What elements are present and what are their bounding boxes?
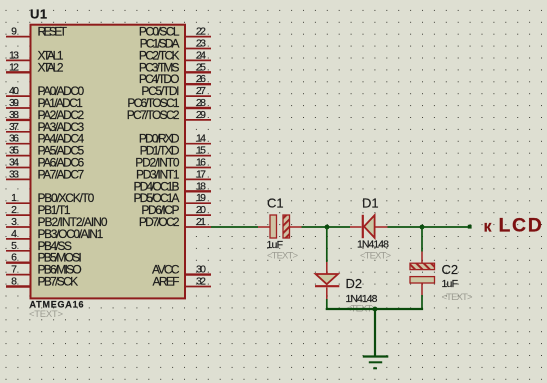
U1 pin 25 (PC3/TMS) right stub + number + name (139, 60, 211, 74)
svg-text:AREF: AREF (153, 275, 180, 289)
U1 pin 20 (PD6/ICP) right stub + number + name (141, 203, 211, 217)
U1 pin 29 (PC7/TOSC2) right stub + number + name (127, 108, 211, 122)
svg-text:20: 20 (196, 204, 206, 216)
svg-text:PC7/TOSC2: PC7/TOSC2 (127, 108, 180, 122)
svg-text:13: 13 (9, 49, 19, 61)
diode D2 anode lead (top) (326, 262, 328, 274)
wire: node B down to C2 (green vertical segment) (421, 227, 423, 252)
U1 pin 28 (PC6/TOSC1) right stub + number + name (127, 96, 211, 110)
U1 pin 32 (AREF) right stub + number + name (153, 275, 212, 289)
svg-text:1uF: 1uF (267, 239, 284, 251)
svg-text:35: 35 (9, 145, 19, 157)
U1 pin 39 (PA1/ADC1) left stub + number + name (6, 96, 83, 110)
U1 pin 24 (PC2/TCK) right stub + number + name (139, 48, 211, 62)
U1 pin 6 (PB5/MOSI) left stub + number + name (6, 251, 82, 265)
svg-text:<TEXT>: <TEXT> (267, 251, 298, 262)
capacitor C2 top lead (421, 252, 423, 264)
svg-text:U1: U1 (30, 7, 48, 22)
svg-text:22: 22 (196, 26, 206, 38)
U1 pin 14 (PD0/RXD) right stub + number + name (139, 132, 211, 146)
U1 pin 21 (PD7/OC2) right stub + number + name (139, 215, 211, 229)
svg-text:ATMEGA16: ATMEGA16 (30, 300, 84, 310)
svg-text:<TEXT>: <TEXT> (442, 292, 473, 303)
diode D2 cathode bar (315, 285, 339, 287)
svg-text:5: 5 (11, 240, 17, 252)
svg-text:C1: C1 (267, 196, 284, 211)
wire: D1 to node B (green segment) (388, 226, 423, 228)
svg-text:PB7/SCK: PB7/SCK (38, 275, 79, 289)
svg-text:7: 7 (11, 264, 17, 276)
svg-text:12: 12 (9, 61, 19, 73)
wire: U1 pin21 to C1 (green segment) (211, 226, 258, 228)
svg-text:C2: C2 (442, 262, 459, 277)
svg-text:37: 37 (9, 121, 19, 133)
node A junction dot (C1/D1/D2 branch) (325, 225, 330, 230)
svg-text:RESET: RESET (38, 25, 68, 39)
svg-text:29: 29 (196, 109, 206, 121)
U1 pin 9 (RESET) left stub + number + name (6, 25, 68, 39)
U1 pin 18 (PD4/OC1B) right stub + number + name (134, 179, 212, 193)
svg-text:27: 27 (196, 85, 206, 97)
svg-text:34: 34 (9, 157, 19, 169)
U1 pin 19 (PD5/OC1A) right stub + number + name (134, 191, 212, 205)
svg-text:1uF: 1uF (442, 278, 459, 290)
U1 pin 17 (PD3/INT1) right stub + number + name (136, 167, 211, 181)
svg-text:PD7/OC2: PD7/OC2 (139, 215, 180, 229)
U1 pin 33 (PA7/ADC7) left stub + number + name (6, 167, 85, 181)
svg-text:14: 14 (196, 133, 206, 145)
svg-text:40: 40 (9, 85, 19, 97)
U1 pin 8 (PB7/SCK) left stub + number + name (6, 275, 78, 289)
svg-text:D2: D2 (346, 276, 363, 291)
svg-text:2: 2 (11, 204, 17, 216)
ground stem (374, 309, 376, 356)
svg-text:1N4148: 1N4148 (357, 239, 389, 251)
svg-text:XTAL2: XTAL2 (38, 60, 64, 74)
U1 pin 1 (PB0/XCK/T0) left stub + number + name (6, 191, 95, 205)
diode D1 anode-side lead (right) (376, 226, 388, 228)
U1 pin 40 (PA0/ADC0) left stub + number + name (6, 84, 85, 98)
svg-text:23: 23 (196, 38, 206, 50)
U1 pin 2 (PB1/T1) left stub + number + name (6, 203, 71, 217)
U1 pin 38 (PA2/ADC2) left stub + number + name (6, 108, 85, 122)
capacitor C1 left lead (258, 226, 270, 228)
U1 pin 22 (PC0/SCL) right stub + number + name (139, 25, 211, 39)
U1 pin 26 (PC4/TDO) right stub + number + name (139, 72, 211, 86)
terminal to LCD (green square) (468, 225, 472, 229)
U1 pin 37 (PA3/ADC3) left stub + number + name (6, 120, 85, 134)
wire: node B to LCD terminal (green segment) (422, 226, 468, 228)
svg-text:24: 24 (196, 49, 206, 61)
U1 pin 30 (AVCC) right stub + number + name (152, 263, 211, 277)
capacitor C1 right lead (290, 226, 302, 228)
svg-text:PA7/ADC7: PA7/ADC7 (38, 167, 85, 181)
capacitor C1 right plate (hatched) (283, 215, 290, 238)
svg-text:16: 16 (196, 157, 206, 169)
wire: C1 to node A / D1 (green segment) (302, 226, 351, 228)
U1 pin 7 (PB6/MISO) left stub + number + name (6, 263, 82, 277)
diode D2 triangle (pointing down) (316, 274, 338, 284)
net label: к LCD (to LCD) (484, 215, 544, 237)
wire: D2 to bottom rail (green vertical) (326, 299, 328, 308)
svg-text:21: 21 (196, 216, 206, 228)
U1 pin 34 (PA6/ADC6) left stub + number + name (6, 156, 85, 170)
svg-text:33: 33 (9, 168, 19, 180)
svg-text:30: 30 (196, 264, 206, 276)
capacitor C2 top plate (hatched) (410, 263, 435, 269)
svg-text:8: 8 (11, 276, 17, 288)
U1 pin 13 (XTAL1) left stub + number + name (6, 48, 64, 62)
wire: C2 to bottom rail (green vertical) (421, 295, 423, 308)
svg-text:к: к (484, 219, 493, 236)
U1 pin 23 (PC1/SDA) right stub + number + name (140, 37, 211, 51)
svg-text:1N4148: 1N4148 (346, 293, 378, 305)
svg-text:<TEXT>: <TEXT> (360, 251, 391, 262)
svg-text:<TEXT>: <TEXT> (29, 309, 63, 320)
ground symbol bars (363, 357, 389, 369)
U1 pin 12 (XTAL2) left stub + number + name (6, 60, 64, 74)
svg-text:19: 19 (196, 192, 206, 204)
U1 pin 5 (PB4/SS) left stub + number + name (6, 239, 72, 253)
U1 pin 27 (PC5/TDI) right stub + number + name (141, 84, 211, 98)
U1 pin 36 (PA4/ADC4) left stub + number + name (6, 132, 85, 146)
svg-text:38: 38 (9, 109, 19, 121)
diode D1 cathode lead (left) (350, 226, 362, 228)
diode D1 cathode bar (362, 215, 364, 238)
capacitor C2 bottom plate (410, 277, 435, 283)
ground junction dot (373, 307, 378, 312)
svg-text:3: 3 (11, 216, 17, 228)
svg-text:17: 17 (196, 168, 206, 180)
diode D1 triangle (364, 215, 375, 238)
svg-text:9: 9 (11, 26, 17, 38)
svg-text:15: 15 (196, 145, 206, 157)
wire: node A down to D2 (green vertical segment) (326, 227, 328, 262)
svg-text:LCD: LCD (499, 215, 544, 237)
svg-text:32: 32 (196, 276, 206, 288)
U1 pin 15 (PD1/TXD) right stub + number + name (140, 144, 211, 158)
diode D2 cathode lead (bottom) (326, 287, 328, 299)
svg-text:28: 28 (196, 97, 206, 109)
node B junction dot (D1/C2/LCD) (420, 225, 425, 230)
U1 pin 3 (PB2/INT2/AIN0) left stub + number + name (6, 215, 108, 229)
svg-text:36: 36 (9, 133, 19, 145)
svg-text:26: 26 (196, 73, 206, 85)
U1 pin 4 (PB3/OC0/AIN1) left stub + number + name (6, 227, 104, 241)
svg-text:4: 4 (11, 228, 17, 240)
IC U1 body (ATMEGA16) (31, 25, 186, 299)
U1 pin 35 (PA5/ADC5) left stub + number + name (6, 144, 85, 158)
svg-text:D1: D1 (362, 196, 379, 211)
wire: bottom ground rail (thick green) (327, 308, 422, 309)
svg-text:6: 6 (11, 252, 17, 264)
U1 pin 16 (PD2/INT0) right stub + number + name (135, 156, 211, 170)
capacitor C1 left plate (270, 215, 277, 238)
svg-text:25: 25 (196, 61, 206, 73)
svg-text:1: 1 (11, 192, 17, 204)
capacitor C2 bottom lead (421, 283, 423, 295)
svg-text:39: 39 (9, 97, 19, 109)
svg-text:18: 18 (196, 180, 206, 192)
